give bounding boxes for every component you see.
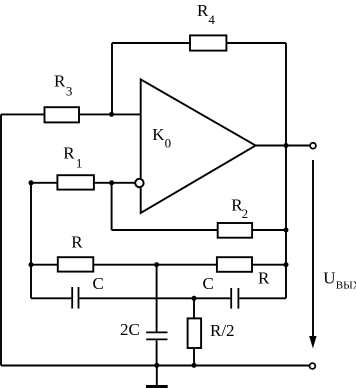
label R1	[63, 143, 82, 170]
capacitor C right	[231, 288, 238, 309]
wire C row middle	[79, 297, 230, 299]
wire R row to right bus	[252, 264, 286, 266]
wire R/2 branch upper	[193, 298, 195, 318]
resistor R right	[217, 257, 252, 272]
wire op-amp output	[256, 145, 311, 147]
node ground junction	[154, 363, 159, 368]
node output junction	[284, 143, 289, 148]
wire R4 to right bus	[226, 42, 286, 44]
resistor R2	[218, 223, 252, 238]
node R/2 tap junction	[192, 296, 197, 301]
wire R2 to right bus	[252, 229, 286, 231]
label R/2	[210, 321, 235, 340]
wire R/2 branch lower	[193, 348, 195, 366]
svg-text:R/2: R/2	[210, 321, 235, 340]
wire ground stub	[156, 366, 158, 386]
resistor R left	[58, 257, 94, 271]
node inverting input junction	[109, 180, 114, 185]
svg-text:R: R	[63, 143, 75, 162]
node R/2 bottom junction	[192, 363, 197, 368]
node R row right junction	[284, 262, 289, 267]
capacitor C left	[72, 287, 78, 309]
arrow Uout	[309, 160, 316, 349]
wire bottom ground rail	[1, 365, 310, 367]
wire inverting node to R2	[112, 229, 218, 231]
wire left inner vertical	[30, 183, 32, 298]
svg-text:2C: 2C	[120, 320, 140, 339]
wire 2C branch upper	[156, 265, 158, 332]
svg-text:4: 4	[208, 12, 215, 27]
ground	[146, 385, 168, 388]
svg-text:R: R	[71, 233, 83, 252]
wire left outer vertical	[0, 114, 2, 365]
svg-text:K: K	[152, 125, 165, 144]
label C left	[93, 274, 104, 293]
wire right vertical bus	[285, 43, 287, 298]
svg-text:2: 2	[242, 206, 249, 221]
wire C row left	[31, 297, 71, 299]
wire top loop left vertical	[111, 43, 113, 114]
label R2	[231, 195, 248, 221]
svg-text:C: C	[93, 274, 104, 293]
wire top horizontal to R4	[112, 42, 190, 44]
op-amp inverting input bubble	[135, 179, 143, 187]
label C right	[203, 274, 214, 293]
svg-text:C: C	[203, 274, 214, 293]
label K0	[152, 125, 171, 150]
op-amp U1 K0 triangle	[141, 79, 256, 213]
wire C row to right bus	[239, 297, 286, 299]
svg-text:R: R	[54, 71, 66, 90]
svg-text:U: U	[323, 269, 335, 288]
svg-text:0: 0	[165, 135, 172, 150]
svg-text:3: 3	[66, 83, 73, 98]
label R right	[258, 268, 270, 287]
wire 2C branch lower	[156, 340, 158, 365]
wire R1 to inverting bubble	[94, 182, 135, 184]
label 2C	[120, 320, 140, 339]
svg-text:ВЫХ: ВЫХ	[336, 279, 356, 291]
resistor R/2	[188, 318, 202, 348]
node R1 left junction	[29, 180, 34, 185]
wire R row middle	[93, 264, 217, 266]
wire R3 row left	[1, 113, 45, 115]
output terminal bottom	[310, 363, 316, 369]
label R left	[71, 233, 83, 252]
node R2 right junction	[284, 228, 289, 233]
output terminal top	[310, 143, 316, 149]
wire R1 row left	[31, 182, 57, 184]
resistor R1	[57, 175, 94, 189]
label R4	[197, 1, 215, 27]
wire inverting node vertical	[111, 183, 113, 230]
svg-text:1: 1	[76, 155, 83, 170]
node 2C tap junction	[154, 262, 159, 267]
wire R row left	[31, 264, 58, 266]
node R3/R4/noninverting junction	[109, 112, 114, 117]
label R3	[54, 71, 72, 98]
svg-text:R: R	[197, 1, 209, 20]
label Uout	[323, 269, 356, 292]
node R row left junction	[29, 262, 34, 267]
svg-text:R: R	[258, 268, 270, 287]
capacitor 2C	[146, 332, 167, 339]
resistor R3	[45, 107, 80, 122]
wire R3 to op-amp noninverting input	[79, 113, 141, 115]
resistor R4	[190, 35, 226, 50]
